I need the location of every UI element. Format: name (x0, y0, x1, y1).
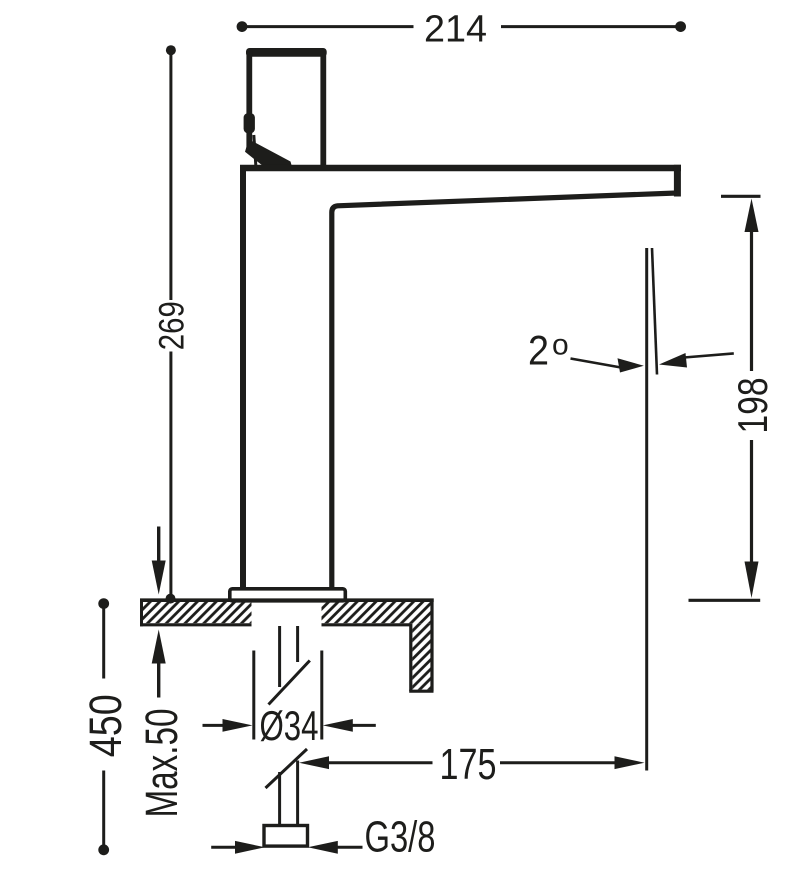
dimension 175 right arrowhead (615, 756, 645, 769)
pipe break slash lower (266, 749, 308, 788)
dimension Max.50 lower arrowhead (152, 630, 166, 664)
dimension 214 right dot (675, 21, 686, 32)
dimension Max.50 upper arrowhead (152, 561, 166, 595)
supply pipe lower right line (296, 761, 299, 827)
dimension 450 line lower segment (102, 771, 105, 846)
pipe break slash upper (269, 661, 310, 705)
dimension G3/8 right arrowhead (308, 841, 338, 854)
handle side knob (244, 113, 255, 133)
dimension 269 line lower segment (169, 352, 172, 595)
dimension G3/8 left line (211, 846, 236, 849)
handle pivot line (254, 135, 256, 165)
svg-text:G3/8: G3/8 (365, 813, 436, 862)
countertop bottom cap right (409, 690, 433, 693)
countertop top surface line (140, 598, 434, 602)
countertop hatch right band (322, 602, 431, 623)
G3/8 end fitting (264, 826, 308, 847)
dimension 269 bottom dot (166, 594, 176, 604)
dimension 269 top dot (166, 45, 176, 55)
hole diameter extension line left (252, 651, 255, 740)
svg-text:Ø34: Ø34 (260, 702, 319, 749)
dimension D34 left line (203, 724, 225, 727)
countertop bottom line right (322, 623, 411, 626)
dimension D34 left arrowhead (223, 719, 253, 732)
dimension 269 line upper segment (169, 54, 172, 300)
dimension 214 line right segment (501, 25, 681, 28)
svg-text:o: o (552, 329, 569, 362)
angle 2deg right leader line (684, 353, 734, 357)
dimension 198 upper line (750, 231, 753, 371)
dimension G3/8 left arrowhead (235, 841, 265, 854)
supply pipe lower left line (278, 772, 281, 826)
faucet handle top bar (246, 48, 327, 57)
dimension 198 top tick (721, 195, 761, 198)
angle 2deg left arrowhead (618, 358, 644, 372)
dimension 214 line left segment (242, 25, 414, 28)
dimension 175 left line (328, 761, 433, 764)
countertop outer right edge (430, 599, 433, 692)
dimension Max.50 upper line (157, 527, 160, 563)
angle 2deg right arrowhead (659, 353, 687, 368)
supply pipe upper left line (278, 626, 281, 687)
svg-text:Max.50: Max.50 (136, 709, 187, 818)
handle lever (245, 141, 292, 167)
faucet handle left edge (246, 51, 252, 148)
supply pipe upper right line (296, 626, 299, 662)
dimension 175 right line (500, 761, 616, 764)
svg-text:214: 214 (424, 9, 487, 51)
faucet handle right edge (320, 51, 326, 166)
svg-text:450: 450 (80, 694, 131, 757)
dimension 198 top arrowhead (745, 199, 759, 233)
svg-text:269: 269 (153, 301, 192, 350)
countertop inner vertical edge (409, 623, 412, 691)
svg-text:175: 175 (440, 740, 497, 789)
angle 2deg left leader line (571, 359, 622, 368)
dimension 175 left arrowhead (299, 756, 329, 769)
dimension Max.50 lower line (157, 663, 160, 698)
hole diameter extension line right (320, 651, 323, 740)
angle 2deg tilted line (652, 248, 657, 375)
angle 2deg vertical axis line (645, 248, 648, 771)
svg-text:2: 2 (528, 327, 549, 374)
countertop hatch left band (142, 602, 252, 623)
countertop left end cap (140, 599, 143, 627)
base flange (230, 589, 345, 601)
countertop bottom line left (140, 623, 252, 626)
countertop hatch right vertical strip (412, 623, 430, 690)
dimension 450 top dot (98, 598, 109, 609)
spout right tip edge (674, 165, 681, 197)
dimension G3/8 right line (337, 846, 363, 849)
dimension 198 lower line (750, 440, 753, 563)
dimension 214 left dot (237, 21, 248, 32)
svg-text:198: 198 (729, 378, 776, 434)
dimension 198 bottom tick (689, 599, 761, 602)
column outer left edge (240, 167, 246, 590)
dimension 450 line upper segment (102, 609, 105, 679)
dimension 450 bottom dot (98, 844, 109, 855)
dimension D34 right arrowhead (323, 719, 353, 732)
dimension 198 bottom arrowhead (745, 562, 759, 599)
spout bottom slanted edge and inner column edge (332, 193, 677, 590)
spout top edge (240, 165, 681, 171)
dimension D34 right line (352, 724, 376, 727)
